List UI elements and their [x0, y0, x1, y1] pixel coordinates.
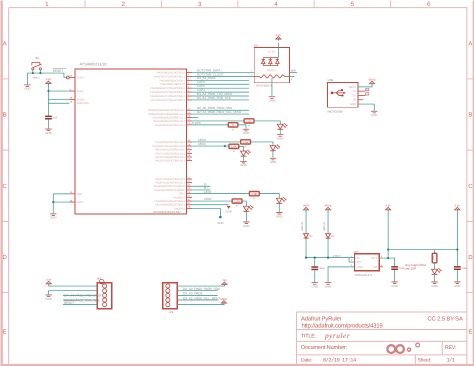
ground at C1	[45, 129, 51, 135]
wire VBAT to D3	[305, 211, 307, 233]
wire VDDCORE to C1	[47, 103, 49, 116]
X1 D- stub	[358, 90, 366, 92]
svg-text:PA03/AIN1/VREFA/Y0: PA03/AIN1/VREFA/Y0	[161, 83, 186, 86]
wire D4 to bus	[327, 237, 329, 257]
svg-text:10uF: 10uF	[319, 267, 325, 270]
wire JP1 pin4	[63, 299, 97, 301]
capacitor C2	[311, 267, 325, 270]
U1 pin 26 RESET	[69, 75, 85, 80]
wire OUT to 3.3V arrow	[387, 211, 389, 258]
svg-text:2: 2	[121, 1, 125, 8]
svg-text:U3: U3	[354, 250, 358, 254]
svg-text:3.3V: 3.3V	[276, 34, 282, 37]
svg-text:GND: GND	[76, 193, 82, 196]
ground at JP1	[45, 295, 51, 301]
svg-text:R: R	[232, 128, 234, 131]
U1 pin 23 PA24	[154, 184, 192, 189]
supply 3V3 at U1	[46, 78, 52, 85]
connector JP4 5-pin header	[163, 283, 178, 309]
U1 pin 28 GND	[174, 206, 192, 211]
diode U2 channel 1	[261, 58, 265, 66]
ground at S1	[24, 85, 30, 91]
LED LED1	[276, 197, 286, 203]
ground at U2	[269, 97, 275, 103]
svg-text:GND: GND	[350, 102, 356, 106]
wire rail to R7	[434, 250, 436, 253]
resistor R3	[241, 140, 251, 149]
wire GND stub A	[192, 204, 229, 206]
switch S1 reset button	[32, 56, 42, 79]
svg-text:C: C	[2, 183, 7, 190]
op-amp U1 main MCU box ATSAMD21E18	[75, 69, 187, 214]
U1 pin 25 PA27	[179, 191, 192, 196]
U1 pin 27 PA28	[173, 195, 192, 200]
svg-text:PA07/AIN7/AC/Y5/SERCOM0.3: PA07/AIN7/AC/Y5/SERCOM0.3	[150, 99, 185, 102]
wire U2 common to 3.3V	[277, 43, 279, 58]
U1 pin 31 PA30	[155, 198, 192, 203]
wire net DOTSTAR_DATA to TVS	[192, 71, 254, 73]
diode U2 channel 3	[276, 58, 280, 66]
wire R5 to LED1	[260, 194, 280, 199]
svg-text:PA17/Y11/SERCOM1.1/3.1: PA17/Y11/SERCOM1.1/3.1	[155, 152, 185, 155]
wire R2 to ground	[238, 125, 246, 129]
wire JP4 pin2	[177, 290, 217, 292]
svg-text:D1_A1_PA05_RXD_SCK: D1_A1_PA05_RXD_SCK	[197, 96, 232, 100]
wire DIG1 to ground	[434, 274, 436, 282]
svg-text:GND: GND	[325, 285, 331, 289]
svg-text:PA22/Y14/SERCOM3.0/5.0: PA22/Y14/SERCOM3.0/5.0	[155, 178, 185, 181]
wire JP4 pin5 VBAT	[177, 303, 224, 306]
wire R3 to LED3	[250, 142, 273, 146]
wire RESET net	[28, 73, 67, 77]
svg-text:10uF: 10uF	[462, 267, 468, 270]
svg-text:GND: GND	[391, 284, 397, 288]
U1 pin 16 PA15	[153, 143, 192, 148]
U1 pin 9 VDDA	[69, 88, 83, 93]
wire net D0_A0_PA08_PAD0_SDA	[192, 109, 249, 111]
U1 pin 2 PA01	[154, 74, 192, 79]
junction OUT	[387, 257, 389, 259]
X1 D+ stub	[358, 94, 366, 96]
U1 pin 13 PA10	[153, 115, 192, 120]
svg-text:C: C	[468, 183, 473, 190]
supply 3V3 at JP1	[46, 279, 52, 286]
supply 3V3 right	[455, 205, 461, 212]
ground at C4	[454, 282, 460, 288]
wire X1 GND	[358, 104, 374, 111]
wire LED2 to ground	[245, 211, 247, 222]
ground at C3	[391, 282, 397, 288]
svg-text:1.0K: 1.0K	[231, 145, 237, 149]
wire net D1_A1_PA05_RXD_SCK	[192, 99, 249, 101]
svg-text:http://adafruit.com/products/4: http://adafruit.com/products/4319	[301, 323, 383, 330]
wire R7 to LED DIG1	[434, 263, 436, 269]
svg-text:OUT: OUT	[371, 256, 377, 260]
svg-text:ATSAMD21E18: ATSAMD21E18	[79, 62, 106, 66]
svg-text:3.3V: 3.3V	[46, 279, 52, 282]
wire VBUS	[358, 85, 372, 87]
svg-text:Sheet:: Sheet:	[417, 358, 431, 364]
U1 pin 24 PA25	[154, 187, 192, 192]
U1 pin 30 VDDIN	[69, 97, 84, 102]
svg-text:GND: GND	[431, 284, 437, 288]
junction S1 left	[32, 72, 34, 74]
wire R4 to LED4	[239, 146, 244, 151]
junction GNDA	[52, 201, 54, 203]
wire to VDDCORE	[48, 91, 69, 103]
svg-text:KMR2: KMR2	[32, 76, 40, 79]
svg-text:1/1: 1/1	[446, 358, 454, 364]
svg-text:AP2112K-3.3: AP2112K-3.3	[355, 273, 372, 277]
svg-text:PA06/AIN6/AC/Y4/SERCOM0.2: PA06/AIN6/AC/Y4/SERCOM0.2	[150, 95, 185, 98]
U2 pin numbers	[251, 70, 293, 81]
svg-text:1.0K: 1.0K	[251, 192, 257, 196]
wire U2 to ground	[271, 78, 273, 96]
svg-text:D0_A0_PA08_PAD0_SDA: D0_A0_PA08_PAD0_SDA	[183, 287, 221, 291]
junction LED4	[224, 145, 226, 147]
U1 pin 11 PA08	[148, 108, 192, 113]
svg-text:PA14/XIN/SERCOM2.2/4.2: PA14/XIN/SERCOM2.2/4.2	[155, 141, 185, 144]
supply VHI at JP4	[222, 279, 227, 286]
svg-text:B: B	[3, 112, 7, 119]
svg-text:3.3V: 3.3V	[455, 205, 461, 208]
wire GND stub B	[192, 208, 220, 215]
wire net D4_A4_PA06_TXD_MOSI	[192, 95, 249, 97]
wire to VDDIN	[48, 98, 69, 100]
svg-text:JP4: JP4	[168, 310, 173, 314]
frame row ticks	[0, 79, 474, 293]
svg-text:GND: GND	[371, 113, 377, 117]
wire net D-	[192, 185, 210, 187]
junction bus D4	[327, 257, 329, 259]
svg-text:GND: GND	[269, 99, 275, 103]
svg-text:E: E	[3, 328, 7, 335]
wire VIN bus	[306, 257, 354, 259]
resistor R2	[228, 123, 238, 132]
svg-text:PA18/Y12/SERCOM1.2/3.2: PA18/Y12/SERCOM1.2/3.2	[155, 156, 185, 159]
net flag D-	[366, 88, 369, 91]
ground under LED D13	[277, 135, 283, 141]
svg-text:VDDA: VDDA	[76, 90, 83, 93]
U1 pin 20 PA19	[155, 158, 192, 163]
ground at X1	[371, 111, 377, 117]
svg-text:D2_A2_PA09_SCL_MISO: D2_A2_PA09_SCL_MISO	[183, 296, 220, 300]
svg-text:R: R	[233, 150, 235, 153]
capacitor C3	[391, 267, 405, 270]
svg-text:GNDA: GNDA	[76, 201, 84, 204]
frame column ticks	[85, 0, 390, 7]
svg-text:PA02/AIN0/DAC/VOUT: PA02/AIN0/DAC/VOUT	[160, 79, 186, 82]
junction bus C2	[314, 257, 316, 259]
fuse F1 wavy element	[259, 75, 284, 78]
wire to R1	[192, 120, 244, 122]
ground at C2	[312, 283, 318, 289]
svg-text:1uF: 1uF	[53, 116, 58, 119]
net label RESET at JP1	[64, 301, 77, 305]
wire R1 to LED D13	[254, 121, 280, 124]
ground under LED2	[243, 222, 249, 228]
X1 usb trident logo	[331, 89, 346, 96]
svg-text:D2_A2_PA09_PAD1_SCL_MISO: D2_A2_PA09_PAD1_SCL_MISO	[197, 110, 242, 114]
svg-text:D-: D-	[366, 89, 369, 92]
svg-text:GND: GND	[50, 216, 56, 220]
supply 3V3 out	[386, 205, 392, 212]
wire JP1 pin3	[63, 294, 97, 296]
title block frame	[296, 312, 466, 364]
svg-text:R: R	[236, 205, 238, 208]
wire bus to C2	[314, 258, 316, 268]
supply VBUS in	[325, 205, 332, 212]
svg-text:GND: GND	[276, 214, 282, 218]
regulator U3 AP2112K box	[354, 254, 379, 271]
wire JP1 pin1 3.3V	[49, 285, 98, 286]
svg-text:GND: GND	[217, 221, 223, 225]
svg-text:PA24/SERCOM3.2/USB/DM: PA24/SERCOM3.2/USB/DM	[154, 185, 185, 188]
svg-text:GND: GND	[243, 131, 249, 135]
svg-text:RESET: RESET	[64, 301, 74, 305]
wire stub PA10	[192, 116, 198, 118]
wire JP1 pin5	[63, 304, 97, 306]
svg-text:PA15/XOUT/SERCOM2.3/4.3: PA15/XOUT/SERCOM2.3/4.3	[153, 145, 186, 148]
svg-text:ATSAMD21E18A-MU: ATSAMD21E18A-MU	[153, 210, 181, 214]
U1 pin 12 PA09	[148, 111, 192, 116]
U1 pin 14 PA11	[153, 118, 192, 123]
svg-text:10R: 10R	[432, 256, 435, 261]
svg-text:PA19/Y13/SERCOM1.3/3.3: PA19/Y13/SERCOM1.3/3.3	[155, 160, 185, 163]
resistor R4	[229, 144, 239, 153]
net flag D+	[366, 93, 370, 96]
svg-text:VOUT: VOUT	[333, 254, 341, 258]
U1 pin 17 PA16	[155, 147, 192, 152]
U1 pin 19 PA18	[155, 154, 192, 159]
svg-text:3.3V: 3.3V	[386, 205, 392, 208]
svg-text:R: R	[245, 146, 247, 149]
svg-text:R: R	[248, 125, 250, 128]
svg-text:GND: GND	[240, 163, 246, 167]
svg-text:GND: GND	[454, 284, 460, 288]
svg-text:PA23/Y15/SERCOM3.1/5.1: PA23/Y15/SERCOM3.1/5.1	[155, 182, 185, 185]
svg-text:S1: S1	[35, 56, 39, 60]
svg-text:D3_A3_PAD3: D3_A3_PAD3	[183, 292, 203, 296]
wire LED1 to ground	[278, 203, 280, 212]
diode D4 MBR120	[323, 221, 331, 238]
wire LED D13 to ground	[279, 129, 281, 134]
LED DIG1 very bright	[432, 268, 442, 274]
wire net CAP3	[192, 83, 249, 85]
wire U3 GND	[328, 267, 354, 282]
U1 pin 5 PA04	[150, 85, 192, 90]
svg-text:PA28/RST: PA28/RST	[173, 196, 185, 199]
resistor R1	[244, 119, 254, 128]
U1 pin 18 PA17	[155, 151, 192, 156]
wire net /CAP0	[192, 124, 228, 126]
wire VBUS to D4	[327, 211, 329, 233]
U1 pin 7 PA06	[150, 93, 192, 98]
svg-text:PA04/AIN4/AC/Y2/SERCOM0.0: PA04/AIN4/AC/Y2/SERCOM0.0	[150, 87, 185, 90]
capacitor C1	[45, 116, 58, 119]
svg-text:Document Number:: Document Number:	[301, 344, 348, 351]
supply VBAT in	[303, 205, 310, 212]
U1 pin 3 PA02	[160, 78, 193, 83]
JP1 pin1 loop marker	[99, 279, 104, 284]
wire S1 left contact	[32, 70, 34, 73]
svg-text:FB: FB	[373, 265, 377, 269]
svg-text:PA27: PA27	[179, 193, 185, 196]
wire gnd vertical	[52, 194, 54, 213]
svg-text:E: E	[468, 328, 472, 335]
svg-text:CC 2.5 BY-SA: CC 2.5 BY-SA	[427, 315, 463, 322]
svg-text:1: 1	[45, 1, 49, 8]
svg-text:PA01/XOUT32/SERCOM1.1: PA01/XOUT32/SERCOM1.1	[154, 75, 186, 78]
U1 pin 4 PA03	[161, 82, 193, 87]
svg-text:SP0503: SP0503	[267, 69, 276, 72]
svg-text:EN: EN	[357, 260, 361, 264]
connector JP1 5-pin header	[97, 283, 112, 309]
wire net LED3	[192, 141, 241, 143]
wire net LED2	[192, 200, 232, 202]
ground under LED3	[270, 158, 276, 164]
svg-text:D: D	[468, 254, 473, 261]
svg-text:MBR120: MBR120	[323, 221, 326, 231]
svg-text:PA14/XIN/SERCOM2.2/4.2: PA14/XIN/SERCOM2.2/4.2	[155, 124, 185, 127]
U1 pin 6 PA05	[150, 89, 192, 94]
adafruit logo	[387, 343, 419, 353]
svg-text:MICROUSB: MICROUSB	[327, 110, 342, 114]
svg-text:PA31/SWDIO/SERCOM1.3: PA31/SWDIO/SERCOM1.3	[155, 204, 185, 207]
ground flag B dot	[219, 216, 222, 219]
svg-text:LED2: LED2	[204, 197, 212, 201]
LED LED3	[270, 145, 280, 151]
LED LED4	[241, 150, 251, 156]
supply VBUS at X1	[369, 79, 376, 86]
wire JP4 pin1 VHI	[177, 284, 224, 287]
svg-text:GND: GND	[225, 210, 231, 214]
svg-text:/CAP0: /CAP0	[192, 121, 201, 125]
svg-text:1.0K: 1.0K	[242, 140, 248, 144]
svg-text:SP0503BAHT: SP0503BAHT	[256, 85, 273, 88]
junction 3.3V rail	[387, 248, 389, 250]
diode U2 channel 2	[269, 58, 273, 66]
svg-text:Date:: Date:	[301, 358, 312, 364]
svg-text:VBAT: VBAT	[303, 205, 310, 208]
capacitor C4	[454, 267, 468, 270]
resistor R5	[249, 192, 259, 201]
resistor R6	[232, 199, 242, 208]
wire U3 OUT	[379, 258, 394, 267]
wire JP4 pin3	[177, 294, 217, 296]
wire JP1 pin2 gnd	[49, 291, 98, 295]
U1 pin 1 PA00	[157, 70, 192, 75]
svg-text:LED4: LED4	[198, 142, 206, 146]
connector X1 micro USB box	[327, 82, 358, 107]
svg-text:D4_A4_PA06_TXD_MOSI: D4_A4_PA06_TXD_MOSI	[64, 294, 101, 298]
wire net CAP2	[192, 87, 249, 89]
svg-text:D: D	[2, 254, 7, 261]
wire LED4 to ground	[242, 156, 244, 161]
wire U2 out bottom	[289, 75, 294, 77]
wire net LED1	[192, 193, 249, 195]
wire net LED4	[192, 145, 229, 147]
wire 3.3V to VDDA	[48, 85, 69, 91]
wire net DOTSTAR_CLOCK to TVS	[192, 75, 254, 77]
diode array U2 SP0503BAHT box	[254, 48, 289, 83]
svg-text:RESET: RESET	[53, 69, 63, 73]
svg-text:D2: D2	[254, 44, 258, 48]
svg-text:NC NC: NC NC	[268, 51, 276, 54]
svg-text:MBR120: MBR120	[301, 221, 304, 231]
svg-text:1.0K: 1.0K	[234, 199, 240, 203]
svg-text:1.0K: 1.0K	[246, 119, 252, 123]
svg-text:GND: GND	[277, 137, 283, 141]
junction bus left	[305, 257, 307, 259]
wire D3 to bus	[305, 237, 307, 257]
svg-text:PA05/AIN5/AC/Y3/SERCOM0.1: PA05/AIN5/AC/Y3/SERCOM0.1	[150, 91, 185, 94]
svg-text:VDDCORE: VDDCORE	[76, 102, 89, 105]
svg-text:REV:: REV:	[445, 345, 457, 351]
svg-text:PA11/AIN19/SERCOM0.3/2.3: PA11/AIN19/SERCOM0.3/2.3	[153, 120, 186, 123]
svg-text:Use 10R: Use 10R	[405, 267, 416, 271]
wire C3 to ground	[394, 270, 396, 281]
svg-text:USB: USB	[328, 78, 334, 82]
wire 3.3V rail	[388, 249, 457, 251]
svg-text:GND: GND	[357, 265, 363, 269]
junction rail right	[456, 248, 458, 250]
wire R6 to LED2	[242, 201, 246, 206]
wire S1 to ground	[27, 73, 29, 84]
svg-text:4: 4	[274, 1, 278, 8]
U1 pin 10 GND	[69, 191, 82, 196]
ground under LED1	[276, 212, 282, 218]
LED LED2	[243, 205, 253, 211]
supply 3V3 at U2	[276, 34, 282, 41]
U3 pin numbers	[351, 255, 383, 267]
svg-text:GND: GND	[24, 87, 30, 91]
wire net D3_A3_PAD3	[192, 79, 249, 81]
svg-text:GND/PAD: GND/PAD	[174, 207, 185, 210]
U2 common rails	[263, 58, 278, 66]
wire U2 out top	[289, 71, 297, 73]
ground at R2	[243, 129, 249, 135]
U1 pin 8 PA07	[150, 97, 192, 102]
U1 pin 29 VDDCORE	[70, 101, 90, 106]
svg-text:8/2/19 17:14: 8/2/19 17:14	[323, 358, 356, 364]
U1 pin 32 PA31	[155, 202, 192, 207]
svg-text:5: 5	[351, 1, 355, 8]
resistor R7	[432, 253, 437, 263]
wire C4 to ground	[456, 270, 458, 281]
wire C1 to ground	[47, 119, 49, 128]
svg-text:LED1: LED1	[204, 190, 212, 194]
svg-text:VHI: VHI	[291, 69, 296, 73]
wire 3.3V to C4	[456, 211, 458, 267]
svg-text:JP1: JP1	[96, 277, 101, 281]
ground at U1	[50, 214, 56, 220]
diode D3 MBR120	[301, 221, 309, 238]
U1 pin 15 PA14	[155, 139, 192, 144]
wire net CAP1	[192, 91, 249, 93]
wire C2 to ground	[314, 270, 316, 282]
svg-text:VBUS: VBUS	[325, 205, 332, 208]
ground at DIG1	[431, 282, 437, 288]
svg-text:GND: GND	[45, 131, 51, 135]
U1 pin 19 GNDA	[69, 199, 84, 204]
wire GND pin	[53, 193, 69, 195]
svg-text:PA25/SERCOM3.3/USB/DP: PA25/SERCOM3.3/USB/DP	[154, 189, 185, 192]
wire net D2_A2_PA09_PAD1_SCL_MISO	[192, 113, 249, 115]
U1 pin 15 PA14	[155, 122, 192, 127]
svg-text:VDDIN: VDDIN	[76, 98, 84, 101]
U1 pin 21 PA22	[155, 176, 192, 181]
